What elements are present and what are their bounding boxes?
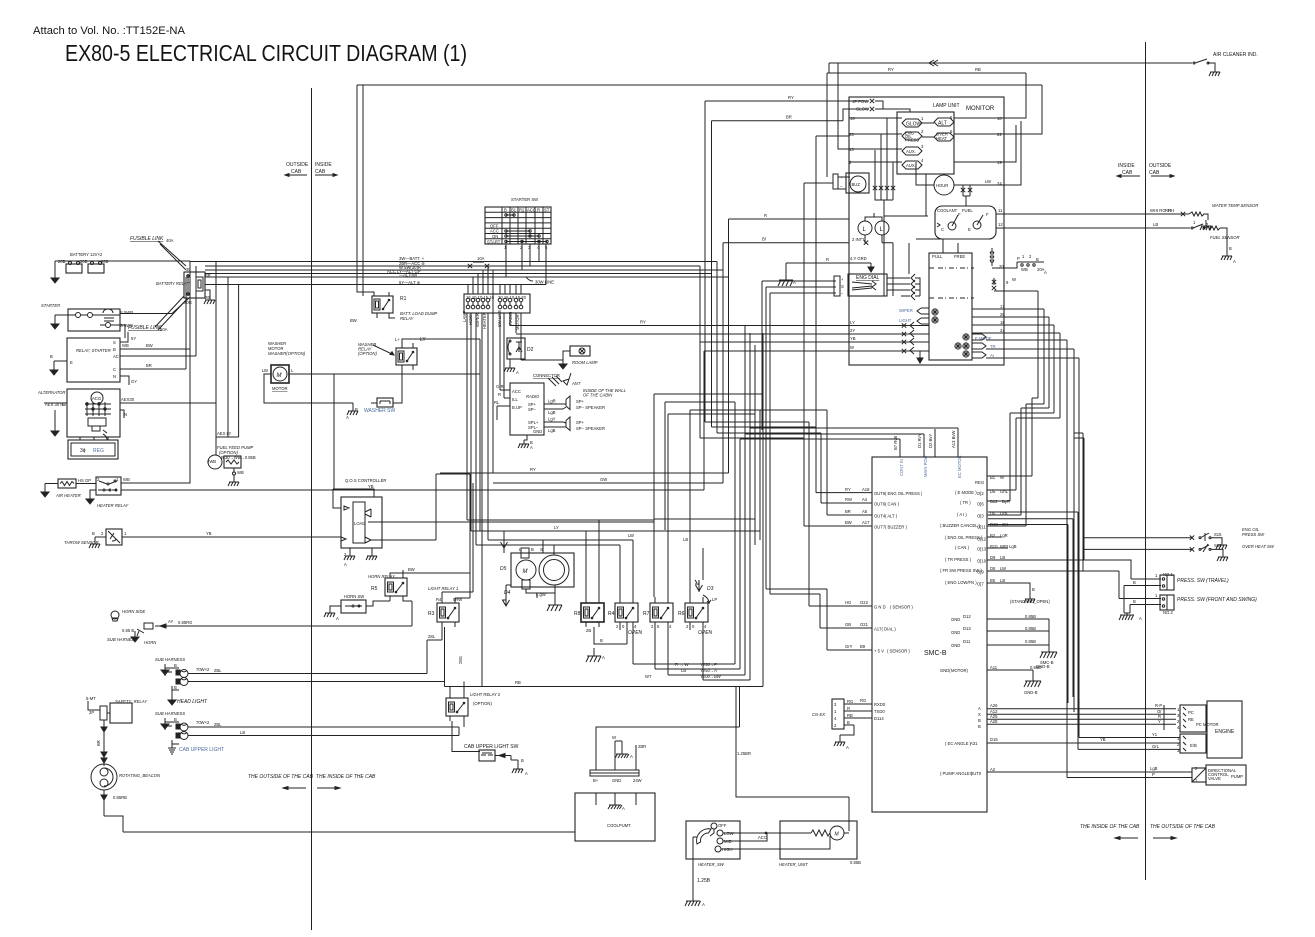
svg-text:LP: LP bbox=[712, 597, 717, 602]
starter switch table bbox=[485, 197, 551, 285]
svg-text:WT: WT bbox=[645, 674, 652, 679]
svg-text:PRESS. SW (TRAVEL): PRESS. SW (TRAVEL) bbox=[1177, 578, 1229, 584]
svg-text:WASHER(OPTION): WASHER(OPTION) bbox=[268, 351, 306, 356]
lamp unit inner wires bbox=[909, 174, 926, 274]
svg-text:CAB: CAB bbox=[1122, 170, 1133, 176]
svg-text:GLOW: GLOW bbox=[906, 122, 922, 128]
svg-text:( CAN ): ( CAN ) bbox=[955, 545, 970, 550]
svg-text:B: B bbox=[531, 547, 534, 552]
svg-text:AUX.: AUX. bbox=[906, 163, 916, 168]
hour meter bbox=[916, 162, 1004, 195]
svg-text:GND-B: GND-B bbox=[1024, 690, 1038, 695]
svg-text:WATER TEMP SENSOR: WATER TEMP SENSOR bbox=[1212, 203, 1258, 208]
node INSIDE CAB / OUTSIDE CAB labels right top bbox=[1117, 163, 1174, 177]
node OUTSIDE CAB / INSIDE CAB labels left top bbox=[285, 162, 337, 176]
svg-text:( TR ): ( TR ) bbox=[960, 500, 971, 505]
ground gnd-b lower bbox=[1024, 679, 1041, 695]
svg-text:HORN SIDE: HORN SIDE bbox=[122, 609, 145, 614]
cab upper light switch bbox=[464, 744, 524, 765]
svg-text:15 10 10 15 10: 15 10 10 15 10 bbox=[466, 295, 495, 300]
svg-text:BR: BR bbox=[96, 740, 101, 746]
svg-text:GB: GB bbox=[845, 622, 851, 627]
monitor internal fuses row bbox=[873, 118, 972, 216]
heater unit bbox=[721, 821, 861, 867]
svg-text:A: A bbox=[630, 754, 633, 759]
horn switch bbox=[330, 594, 390, 613]
monitor right wire nest bbox=[1004, 121, 1189, 778]
svg-text:OF THE CABIN: OF THE CABIN bbox=[583, 393, 613, 398]
relay R4 washer control bbox=[608, 597, 643, 636]
svg-text:W: W bbox=[1012, 277, 1016, 282]
svg-text:2 INT'L: 2 INT'L bbox=[852, 237, 866, 242]
battery relay bbox=[156, 261, 211, 305]
svg-text:B+: B+ bbox=[593, 778, 599, 783]
QOS controller bbox=[333, 374, 654, 598]
overheat switch bbox=[1084, 543, 1275, 553]
svg-text:RB: RB bbox=[975, 67, 981, 72]
svg-text:B7 RvB: B7 RvB bbox=[893, 436, 898, 450]
svg-text:( BUZZER ): ( BUZZER ) bbox=[885, 525, 907, 530]
svg-text:YB: YB bbox=[206, 531, 212, 536]
svg-text:LB: LB bbox=[1000, 555, 1005, 560]
ground horn bbox=[131, 631, 139, 642]
svg-text:R: R bbox=[847, 706, 850, 711]
svg-text:D1 RvY: D1 RvY bbox=[917, 433, 922, 448]
ground relay starter bbox=[50, 364, 58, 375]
svg-text:A: A bbox=[525, 771, 528, 776]
svg-text:EC MOTOR: EC MOTOR bbox=[957, 456, 962, 479]
bus wire labels bbox=[387, 256, 425, 285]
alternator bbox=[37, 389, 216, 440]
svg-text:A11: A11 bbox=[990, 665, 998, 670]
svg-text:AC: AC bbox=[113, 354, 119, 359]
svg-text:R1: R1 bbox=[400, 296, 407, 302]
ground alternator bbox=[51, 425, 59, 436]
svg-text:B: B bbox=[1032, 587, 1035, 592]
svg-text:B: B bbox=[600, 638, 603, 643]
svg-text:E/B: E/B bbox=[1190, 743, 1197, 748]
svg-text:A: A bbox=[702, 902, 705, 907]
svg-text:S: S bbox=[113, 340, 116, 345]
svg-text:BR: BR bbox=[786, 115, 792, 120]
wire alternator AEX LY bbox=[216, 277, 239, 437]
monitor unit box bbox=[849, 97, 1004, 365]
radio bbox=[494, 373, 581, 445]
svg-text:VALVE: VALVE bbox=[1208, 776, 1221, 781]
ground head light 1 bbox=[161, 664, 169, 675]
buzzer BUZ bbox=[838, 173, 869, 193]
washer motor bbox=[262, 341, 480, 403]
coolant fuel gauge bbox=[935, 206, 1004, 239]
svg-text:5Y—ALT ⊕: 5Y—ALT ⊕ bbox=[399, 280, 420, 285]
svg-text:LB: LB bbox=[1000, 578, 1005, 583]
ground water temp sensor bbox=[1200, 222, 1211, 230]
svg-text:FUSIBLE LINK: FUSIBLE LINK bbox=[128, 325, 162, 331]
svg-text:OUTSIDE: OUTSIDE bbox=[286, 162, 309, 168]
svg-text:RG: RG bbox=[860, 698, 866, 703]
svg-text:BW: BW bbox=[350, 318, 357, 323]
svg-text:D5: D5 bbox=[500, 566, 507, 572]
SMC-B top pins bbox=[740, 428, 962, 478]
svg-text:70W×2: 70W×2 bbox=[196, 667, 210, 672]
svg-text:2BL: 2BL bbox=[214, 722, 222, 727]
room lamp bbox=[521, 346, 598, 365]
svg-text:O21: O21 bbox=[860, 622, 869, 627]
svg-text:R7: R7 bbox=[643, 611, 650, 617]
svg-text:LW: LW bbox=[1000, 566, 1006, 571]
svg-text:—ALT(W): —ALT(W) bbox=[399, 273, 418, 278]
svg-text:( ALT ): ( ALT ) bbox=[885, 514, 898, 519]
svg-text:CAB: CAB bbox=[291, 169, 302, 175]
svg-text:BW: BW bbox=[146, 343, 153, 348]
svg-text:( A I ): ( A I ) bbox=[957, 512, 967, 517]
SMC-B gnd rows bbox=[951, 614, 1054, 665]
svg-text:B: B bbox=[1133, 580, 1136, 585]
ground fuel sensor bbox=[1221, 252, 1232, 260]
ground room lamp bbox=[559, 358, 567, 369]
svg-text:YB: YB bbox=[368, 484, 374, 489]
right lower vertical bus bbox=[467, 326, 827, 687]
svg-text:GND(: GND( bbox=[940, 668, 951, 673]
svg-text:4.Y GRD: 4.Y GRD bbox=[850, 256, 867, 261]
svg-text:LY: LY bbox=[850, 320, 855, 325]
svg-text:E: E bbox=[968, 227, 971, 232]
connector CN-EX bbox=[812, 698, 886, 738]
svg-text:LOAD: LOAD bbox=[354, 521, 365, 526]
svg-text:CONNECTOR: CONNECTOR bbox=[533, 373, 560, 378]
svg-text:24W: 24W bbox=[633, 778, 642, 783]
svg-text:W: W bbox=[850, 345, 854, 350]
svg-text:FUSIBLE LINK: FUSIBLE LINK bbox=[130, 236, 164, 242]
svg-text:10A: 10A bbox=[477, 256, 485, 261]
svg-text:GND: GND bbox=[533, 429, 542, 434]
svg-text:0.85RG: 0.85RG bbox=[178, 620, 192, 625]
svg-text:26: 26 bbox=[1000, 312, 1005, 317]
speaker front bbox=[563, 396, 605, 410]
svg-text:THE INSIDE OF THE CAB: THE INSIDE OF THE CAB bbox=[1080, 824, 1140, 830]
svg-text:BR: BR bbox=[845, 509, 851, 514]
safety relay bbox=[86, 696, 148, 766]
svg-text:PUMP: PUMP bbox=[1231, 774, 1243, 779]
svg-text:D8: D8 bbox=[990, 566, 996, 571]
connector PC motor bbox=[1177, 705, 1219, 732]
RB wire bus bbox=[445, 656, 764, 686]
svg-text:Attach to Vol. No. :TT152E-NA: Attach to Vol. No. :TT152E-NA bbox=[33, 25, 186, 37]
svg-text:O[12: O[12 bbox=[977, 537, 987, 542]
svg-text:YB: YB bbox=[1100, 737, 1106, 742]
svg-text:D2: D2 bbox=[527, 347, 534, 353]
svg-text:O[3: O[3 bbox=[977, 514, 984, 519]
fuse box output wires down bbox=[467, 270, 849, 687]
ground press switches bbox=[1119, 613, 1142, 621]
svg-text:SUB HARNESS: SUB HARNESS bbox=[155, 657, 185, 662]
svg-text:WHt RG: WHt RG bbox=[1150, 208, 1166, 213]
air cleaner line bbox=[829, 60, 1192, 73]
diode D2 unit bbox=[500, 326, 534, 364]
svg-text:( E MODE ): ( E MODE ) bbox=[955, 490, 977, 495]
relay row output labels bbox=[645, 662, 722, 679]
svg-text:( ENG OIL PRESS ): ( ENG OIL PRESS ) bbox=[885, 491, 923, 496]
svg-text:GND: GND bbox=[612, 778, 621, 783]
svg-text:B: B bbox=[1229, 246, 1232, 251]
svg-text:A: A bbox=[1139, 616, 1142, 621]
fusible link label top bbox=[130, 236, 186, 270]
svg-text:( BUZZER CANCEL ): ( BUZZER CANCEL ) bbox=[940, 523, 980, 528]
svg-text:W: W bbox=[612, 735, 616, 740]
svg-text:LgY: LgY bbox=[548, 417, 556, 422]
svg-text:A31: A31 bbox=[970, 741, 978, 746]
svg-text:BW: BW bbox=[408, 567, 415, 572]
sub harness head light label bbox=[155, 657, 185, 676]
starter bbox=[41, 298, 189, 338]
ground washer switch bbox=[347, 407, 358, 415]
svg-text:ACC: ACC bbox=[758, 835, 767, 840]
svg-text:PRESS. SW (FRONT AND SWING): PRESS. SW (FRONT AND SWING) bbox=[1177, 597, 1257, 603]
svg-text:GND: GND bbox=[951, 630, 960, 635]
svg-text:MAIN POW: MAIN POW bbox=[923, 455, 928, 477]
svg-text:RL: RL bbox=[494, 400, 500, 405]
relay R1 batt load dump bbox=[350, 85, 437, 323]
heater feed wire bbox=[736, 687, 849, 832]
ground QOS 2 bbox=[366, 552, 377, 560]
svg-text:HEAT: HEAT bbox=[936, 136, 947, 141]
relay R8 wiper bbox=[574, 520, 627, 651]
ground cab upper 1 bbox=[161, 718, 169, 729]
horn wire bbox=[155, 601, 412, 628]
svg-text:S: S bbox=[841, 284, 844, 289]
coolpump unit bbox=[575, 793, 655, 841]
svg-text:LgB: LgB bbox=[548, 428, 556, 433]
svg-text:B.UP: B.UP bbox=[512, 405, 522, 410]
directional control valve pump bbox=[1192, 765, 1246, 785]
svg-text:MONITOR: MONITOR bbox=[966, 106, 995, 112]
ground horn switch bbox=[324, 609, 335, 617]
svg-text:OPEN: OPEN bbox=[698, 630, 713, 636]
svg-text:OFF: OFF bbox=[718, 823, 727, 828]
monitor lower-left wires bbox=[849, 216, 893, 296]
svg-text:B: B bbox=[504, 208, 507, 213]
SMC-B motor gnd row bbox=[940, 665, 1041, 679]
svg-text:B: B bbox=[113, 347, 116, 352]
SMC-B serial output rows bbox=[978, 703, 1176, 730]
monitor switch panel bbox=[899, 239, 996, 360]
svg-text:L.gW: L.gW bbox=[536, 592, 546, 597]
svg-text:SUB HARNESS: SUB HARNESS bbox=[155, 711, 185, 716]
svg-text:ENG DIAL: ENG DIAL bbox=[856, 275, 880, 281]
svg-text:X: X bbox=[978, 712, 981, 717]
svg-text:RG: RG bbox=[847, 699, 853, 704]
svg-text:SP− SPEAKER: SP− SPEAKER bbox=[576, 405, 605, 410]
svg-text:LgR: LgR bbox=[1000, 533, 1008, 538]
svg-text:3ϕ: 3ϕ bbox=[80, 448, 86, 454]
svg-text:N: N bbox=[124, 412, 127, 417]
svg-text:A: A bbox=[530, 445, 533, 450]
ground battery relay bbox=[204, 296, 215, 304]
svg-text:( PUMP ANGLE ): ( PUMP ANGLE ) bbox=[940, 771, 973, 776]
svg-text:24: 24 bbox=[1000, 328, 1005, 333]
svg-text:B: B bbox=[978, 724, 981, 729]
svg-text:2B: 2B bbox=[586, 628, 591, 633]
SMC-B left output rows bbox=[766, 410, 923, 654]
svg-text:INSIDE: INSIDE bbox=[1118, 163, 1135, 169]
svg-text:ROTATING_BEACON: ROTATING_BEACON bbox=[119, 773, 161, 778]
svg-text:LB: LB bbox=[240, 730, 245, 735]
svg-text:HORN: HORN bbox=[144, 640, 157, 645]
svg-text:HEATER: HEATER bbox=[482, 312, 487, 329]
svg-text:A: A bbox=[336, 616, 339, 621]
svg-text:30W LINE: 30W LINE bbox=[535, 280, 554, 285]
svg-text:PC: PC bbox=[1188, 710, 1194, 715]
svg-text:B: B bbox=[1133, 599, 1136, 604]
svg-text:LIGHT: LIGHT bbox=[899, 318, 912, 323]
svg-text:LB: LB bbox=[1153, 222, 1158, 227]
washer relay (option) bbox=[358, 337, 480, 531]
fusible link label lower bbox=[128, 296, 187, 332]
eng dial connector wires bbox=[762, 276, 840, 594]
ground cab upper 2 bbox=[168, 744, 176, 754]
svg-text:B: B bbox=[174, 663, 177, 668]
svg-text:EX80-5 ELECTRICAL CIRCUIT DIAG: EX80-5 ELECTRICAL CIRCUIT DIAGRAM (1) bbox=[65, 40, 467, 66]
svg-text:ACC: ACC bbox=[527, 208, 536, 213]
svg-text:A17: A17 bbox=[862, 520, 870, 525]
ground wiper motor bbox=[547, 600, 562, 611]
svg-text:+ 5 V: + 5 V bbox=[874, 649, 884, 654]
svg-text:PRESS SW: PRESS SW bbox=[1242, 532, 1265, 537]
horn relay R5 bbox=[368, 567, 470, 601]
svg-text:RY: RY bbox=[530, 467, 536, 472]
svg-text:ILL: ILL bbox=[512, 397, 518, 402]
svg-text:O[2: O[2 bbox=[977, 491, 984, 496]
svg-text:LY: LY bbox=[554, 525, 559, 530]
svg-text:F: F bbox=[958, 212, 961, 217]
svg-text:(OPTION): (OPTION) bbox=[358, 351, 377, 356]
svg-text:B5: B5 bbox=[990, 578, 996, 583]
throttle sensor bbox=[64, 529, 341, 545]
svg-text:D4: D4 bbox=[504, 590, 511, 596]
press switch front and swing bbox=[1119, 593, 1257, 615]
svg-text:RH: RH bbox=[1168, 208, 1174, 213]
svg-text:GrL: GrL bbox=[1002, 522, 1010, 527]
svg-text:THE INSIDE OF THE CAB: THE INSIDE OF THE CAB bbox=[316, 774, 376, 780]
svg-text:AIR CLEANER IND.: AIR CLEANER IND. bbox=[1213, 52, 1258, 58]
svg-text:CN-EX: CN-EX bbox=[812, 712, 825, 717]
svg-text:ST: ST bbox=[544, 208, 550, 213]
svg-text:COOLPUMT.: COOLPUMT. bbox=[607, 823, 631, 828]
svg-text:B: B bbox=[174, 717, 177, 722]
svg-text:O[6: O[6 bbox=[977, 502, 984, 507]
regulator REG bbox=[68, 437, 118, 459]
svg-text:B: B bbox=[174, 685, 177, 690]
svg-text:SP+: SP+ bbox=[576, 399, 585, 404]
svg-text:WB: WB bbox=[122, 343, 129, 348]
svg-text:Q.O.S CONTROLLER: Q.O.S CONTROLLER bbox=[345, 478, 386, 483]
svg-text:S 5WR: S 5WR bbox=[120, 310, 133, 315]
svg-text:REG: REG bbox=[93, 448, 104, 454]
svg-text:BW: BW bbox=[845, 520, 852, 525]
top long wires to monitor bbox=[357, 63, 1042, 427]
svg-text:SMC-B: SMC-B bbox=[924, 650, 947, 657]
svg-text:TXD0: TXD0 bbox=[874, 709, 885, 714]
svg-text:RE: RE bbox=[1188, 717, 1194, 722]
svg-text:17: 17 bbox=[1000, 304, 1005, 309]
coolpump feed wires bbox=[596, 687, 740, 771]
svg-text:RELAY; STARTER: RELAY; STARTER bbox=[76, 348, 111, 353]
svg-text:FUEL: FUEL bbox=[962, 208, 973, 213]
svg-text:LB: LB bbox=[683, 537, 688, 542]
svg-text:COOLANT: COOLANT bbox=[937, 208, 958, 213]
ground battery bbox=[51, 272, 59, 283]
cab upper light bulbs bbox=[172, 720, 459, 753]
svg-text:A4: A4 bbox=[862, 497, 868, 502]
pump rows bbox=[940, 703, 1198, 783]
svg-text:50A: 50A bbox=[160, 327, 168, 332]
svg-text:CAB: CAB bbox=[315, 169, 326, 175]
svg-text:30: 30 bbox=[186, 267, 191, 272]
svg-text:STARTER SW: STARTER SW bbox=[511, 197, 538, 202]
svg-text:B1: B1 bbox=[511, 208, 517, 213]
svg-text:B: B bbox=[847, 720, 850, 725]
svg-text:RADIO: RADIO bbox=[526, 394, 540, 399]
svg-text:5RW: 5RW bbox=[453, 597, 462, 602]
svg-text:( SENSOR ): ( SENSOR ) bbox=[890, 605, 913, 610]
svg-text:D2 BvY: D2 BvY bbox=[928, 434, 933, 448]
right bus verticals bbox=[988, 512, 1078, 749]
svg-text:2BR: 2BR bbox=[638, 744, 646, 749]
controller SMC-B box bbox=[872, 457, 987, 812]
svg-text:D114: D114 bbox=[874, 716, 884, 721]
svg-text:O22: O22 bbox=[860, 600, 869, 605]
svg-text:OPEN: OPEN bbox=[628, 630, 643, 636]
svg-text:LW: LW bbox=[628, 533, 634, 538]
ground D2 bbox=[504, 364, 515, 372]
svg-text:AUX.: AUX. bbox=[906, 149, 916, 154]
svg-text:O[13: O[13 bbox=[977, 547, 987, 552]
svg-text:S 5WB: S 5WB bbox=[120, 323, 133, 328]
svg-text:R: R bbox=[764, 213, 767, 218]
svg-text:RY: RY bbox=[788, 95, 794, 100]
svg-text:P: P bbox=[1152, 772, 1155, 777]
monitor switch panel outputs right bbox=[972, 304, 1079, 358]
relay R6 bbox=[678, 597, 713, 636]
svg-text:R4: R4 bbox=[436, 597, 442, 602]
ground QOS 1 bbox=[344, 552, 355, 560]
svg-text:A28: A28 bbox=[990, 719, 998, 724]
svg-text:ON: ON bbox=[492, 234, 498, 239]
svg-text:R: R bbox=[826, 257, 829, 262]
svg-text:0.85RB: 0.85RB bbox=[113, 795, 127, 800]
vertical bus drop center bbox=[440, 101, 821, 483]
water temp sensor bbox=[1168, 203, 1258, 222]
svg-text:R: R bbox=[537, 208, 540, 213]
air cleaner switch bbox=[1193, 52, 1258, 68]
svg-text:C: C bbox=[941, 227, 944, 232]
title block bbox=[33, 25, 467, 66]
ground monitor R line bbox=[778, 275, 793, 286]
svg-text:ALT: ALT bbox=[938, 121, 947, 127]
ground relay row bbox=[586, 651, 601, 662]
svg-text:RB: RB bbox=[847, 713, 853, 718]
svg-text:PRESS: PRESS bbox=[905, 138, 919, 143]
svg-text:AEX LY: AEX LY bbox=[217, 431, 232, 436]
svg-text:RY: RY bbox=[845, 487, 851, 492]
svg-text:OUT0: OUT0 bbox=[970, 771, 982, 776]
svg-text:28G: 28G bbox=[458, 656, 463, 664]
svg-text:HORN SW: HORN SW bbox=[344, 594, 364, 599]
svg-text:A: A bbox=[346, 415, 349, 420]
svg-text:FUEL SENSOR: FUEL SENSOR bbox=[1210, 235, 1239, 240]
svg-text:HEATER_UNIT: HEATER_UNIT bbox=[779, 862, 808, 867]
svg-text:A: A bbox=[1233, 259, 1236, 264]
